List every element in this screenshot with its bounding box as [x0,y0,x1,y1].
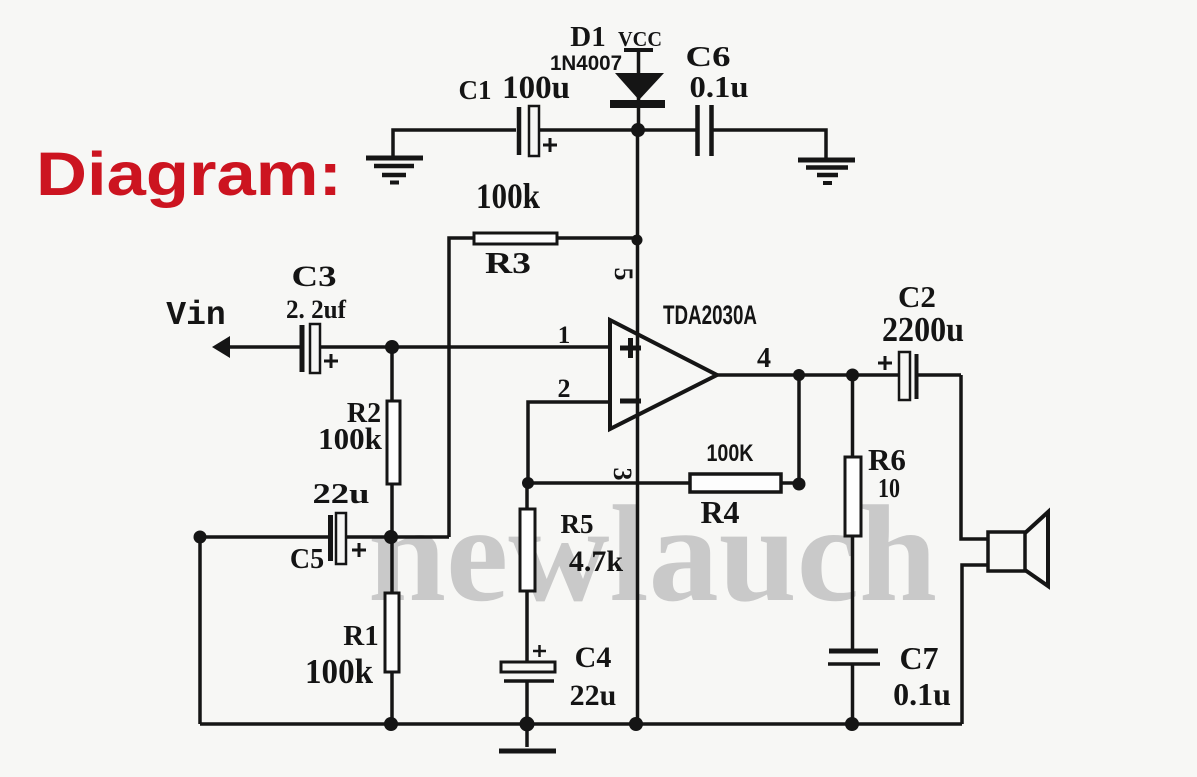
capacitor C1 [459,70,570,156]
ground top-right [798,160,855,183]
resistor R5 [520,509,623,591]
svg-text:22u: 22u [313,478,370,510]
svg-text:4.7k: 4.7k [569,545,624,578]
wire R5 top lead [525,483,529,509]
wire R6 top lead [851,375,855,457]
svg-text:Vin: Vin [166,297,225,334]
node C7 bottom rail [845,717,859,731]
svg-text:0.1u: 0.1u [893,676,951,712]
diode D1 with VCC terminal [550,21,665,108]
wire R4 vertical to output [797,375,801,483]
capacitor C5 [290,478,370,575]
node R4 right [793,478,806,491]
node C5 left [194,531,207,544]
svg-text:100k: 100k [318,421,383,456]
svg-text:0.1u: 0.1u [690,69,749,104]
svg-text:100k: 100k [305,652,374,691]
node x638 bottom rail [629,717,643,731]
svg-text:TDA2030A: TDA2030A [663,300,757,330]
wire top rail middle segment [540,128,696,132]
svg-text:C3: C3 [292,260,337,293]
wire C3 to pin1 [320,345,610,349]
wire R1 top lead [390,537,394,593]
wire pin2 [528,402,610,483]
wire speaker top [961,375,988,539]
svg-text:R3: R3 [485,245,531,280]
wire top rail right segment [713,130,826,158]
svg-text:2: 2 [558,374,571,403]
node output/R4 [793,369,805,381]
svg-text:R1: R1 [343,620,378,652]
resistor R2 [318,398,400,484]
svg-text:1N4007: 1N4007 [550,52,622,75]
node C4 bottom rail [520,717,535,732]
resistor R6 [845,442,906,536]
wire speaker bottom [962,565,988,724]
resistor R3 [474,176,557,280]
svg-text:22u: 22u [570,679,617,712]
svg-text:4: 4 [757,343,771,374]
wire R4 right lead [781,481,799,485]
speaker LS1 [988,512,1048,586]
wire top rail left segment [393,130,516,158]
wire R2 bottom lead [390,484,394,537]
op-amp U1 TDA2030A [558,268,772,481]
svg-text:3: 3 [608,468,637,481]
wire R5 to C4 [525,591,529,662]
svg-text:D1: D1 [570,21,605,53]
wire left vertical x200 [198,537,202,724]
wire R2 top lead [390,347,394,401]
node R3 right [632,235,643,246]
svg-text:R4: R4 [700,494,739,530]
wire C5 right lead [346,535,449,539]
svg-text:1: 1 [558,322,571,349]
wire VCC stub [637,50,641,130]
svg-text:C5: C5 [290,544,324,575]
svg-text:2200u: 2200u [882,310,964,349]
node output/R6 [846,369,859,382]
node R2/R1/C5 [384,530,398,544]
capacitor C3 [286,260,346,373]
svg-text:C7: C7 [899,640,938,676]
svg-text:Diagram:: Diagram: [36,140,342,208]
capacitor C6 [686,41,749,156]
svg-text:100u: 100u [502,70,570,106]
wire pin3 horizontal left [528,481,690,485]
resistor R4 [690,440,781,530]
wire bottom rail [200,722,962,726]
capacitor C4 [501,641,616,712]
svg-text:2. 2uf: 2. 2uf [286,295,346,324]
wire R3 left lead and left vertical [449,238,474,537]
node VCC rail / D1 [631,123,645,137]
wire R3 right lead [557,236,637,240]
wire C7 bottom lead [851,664,855,724]
svg-text:5: 5 [609,268,638,281]
wire C4 bottom lead [525,682,529,724]
wire R1 bottom lead [390,672,394,724]
svg-text:C4: C4 [575,641,612,674]
wire output pin4 [717,373,898,377]
node R1 bottom rail [384,717,398,731]
ground top-left [366,158,423,183]
capacitor C7 [828,640,951,712]
resistor R1 [305,593,399,691]
wire Vin to C3 [226,345,303,349]
svg-text:C1: C1 [459,75,492,105]
node input / R2 [385,340,399,354]
capacitor C2 [878,279,964,400]
svg-text:R6: R6 [868,442,906,477]
svg-text:VCC: VCC [618,27,662,51]
wire C2 right lead [916,373,961,377]
svg-text:100k: 100k [476,176,540,216]
ground bottom [499,749,556,754]
node pin2/R5 [522,477,534,489]
svg-text:10: 10 [878,473,900,503]
wire bottom ground stub [525,724,529,747]
wire R6 to C7 [851,536,855,651]
svg-text:C2: C2 [898,279,936,314]
svg-text:100K: 100K [707,440,755,467]
svg-text:R5: R5 [561,509,594,539]
wire C5 left lead [200,535,331,539]
wire main vertical x638 [636,130,640,724]
input Vin arrow [166,297,230,358]
